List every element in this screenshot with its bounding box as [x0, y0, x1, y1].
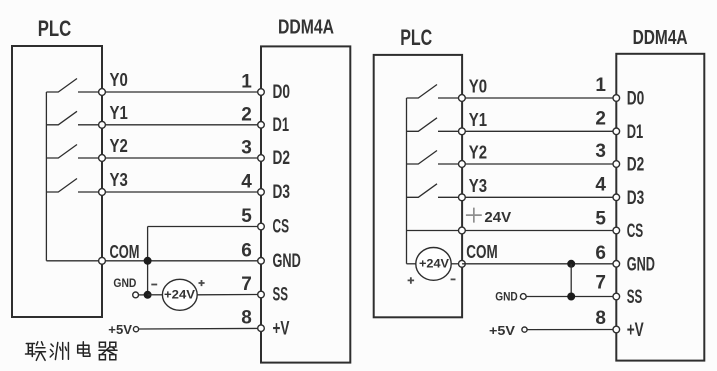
wire GND terminal to junction (left)	[139, 294, 148, 296]
wire GND terminal to SS (right)	[526, 296, 616, 298]
wire junction to source minus (left)	[148, 294, 163, 296]
pin 3 circle (right DDM4A)	[613, 161, 620, 168]
pin 4 circle (left DDM4A)	[258, 189, 265, 196]
svg-text:+24V: +24V	[419, 257, 449, 271]
PLC box (right)	[374, 55, 462, 317]
svg-text:D2: D2	[273, 148, 291, 169]
svg-text:4: 4	[595, 174, 606, 195]
pin 1 circle (right DDM4A)	[613, 95, 620, 102]
svg-text:24V: 24V	[484, 209, 511, 226]
pin 3 circle (left DDM4A)	[258, 155, 265, 162]
junction GND-SS node (right)	[567, 293, 575, 301]
wire source to COM pin (right)	[451, 263, 462, 265]
wire Y1 to pin 2 (left)	[78, 124, 261, 126]
svg-text:Y1: Y1	[110, 103, 128, 123]
wire COM to GND pin (right)	[462, 263, 616, 265]
svg-text:Y1: Y1	[469, 110, 487, 130]
svg-text:7: 7	[595, 273, 606, 294]
svg-text:3: 3	[241, 138, 252, 159]
pin Y0 (right PLC)	[459, 95, 466, 102]
svg-text:GND: GND	[495, 289, 518, 303]
pin 7 circle (left DDM4A)	[258, 291, 265, 298]
switch S2 contact Y1 (left)	[46, 111, 77, 125]
svg-text:8: 8	[241, 308, 252, 329]
wire Y1 to pin 2 (right)	[438, 130, 616, 132]
switch S5 contact Y0 (right)	[407, 85, 438, 99]
supply V1 +24V (left)	[162, 279, 197, 310]
svg-text:+V: +V	[627, 320, 644, 341]
pin 4 circle (right DDM4A)	[613, 194, 620, 201]
svg-text:DDM4A: DDM4A	[278, 17, 334, 39]
switch S6 contact Y1 (right)	[407, 118, 438, 132]
pin COM (left PLC)	[99, 257, 106, 264]
wire GND bus vertical (right)	[570, 264, 572, 297]
polarity minus V1 (left)	[151, 284, 157, 286]
svg-text:CS: CS	[627, 221, 644, 242]
svg-text:Y0: Y0	[110, 70, 128, 90]
svg-text:7: 7	[241, 274, 252, 295]
wire Y3 to pin 4 (right)	[438, 196, 616, 198]
svg-text:D1: D1	[273, 115, 290, 136]
svg-text:SS: SS	[627, 287, 643, 308]
junction COM node (left)	[144, 257, 152, 265]
pin 5 circle (right DDM4A)	[613, 227, 620, 234]
svg-text:GND: GND	[113, 276, 136, 290]
pin 1 circle (left DDM4A)	[258, 89, 265, 96]
svg-text:Y2: Y2	[110, 136, 128, 156]
svg-text:CS: CS	[273, 217, 290, 238]
wire +5V to +V (right)	[527, 329, 616, 331]
svg-text:D0: D0	[273, 82, 291, 103]
svg-text:5: 5	[241, 206, 252, 227]
pin Y2 (right PLC)	[459, 161, 466, 168]
pin +24V output (right PLC)	[459, 227, 466, 234]
switch S3 contact Y2 (left)	[46, 145, 77, 159]
pin Y3 (right PLC)	[459, 194, 466, 201]
svg-text:DDM4A: DDM4A	[633, 27, 688, 49]
svg-text:2: 2	[595, 108, 606, 129]
switch S8 contact Y3 (right)	[407, 184, 438, 198]
svg-text:Y3: Y3	[110, 170, 128, 190]
watermark 联 (char 1)	[26, 342, 46, 361]
svg-text:+V: +V	[273, 318, 290, 339]
wire +24V output to CS (right)	[407, 230, 617, 232]
pin Y2 (left PLC)	[99, 155, 106, 162]
svg-text:GND: GND	[627, 254, 655, 275]
pin 2 circle (right DDM4A)	[613, 128, 620, 135]
svg-text:6: 6	[595, 243, 606, 264]
wire CS branch (left)	[148, 226, 261, 228]
pin 2 circle (left DDM4A)	[258, 122, 265, 129]
watermark 洲 (char 2)	[50, 343, 68, 360]
junction GND node (left)	[144, 291, 152, 299]
PLC box (left)	[12, 46, 102, 317]
switch S4 contact Y3 (left)	[46, 179, 77, 193]
svg-text:GND: GND	[273, 251, 301, 272]
switch common bus (left)	[45, 92, 47, 261]
wire Y0 to pin 1 (right)	[438, 97, 616, 99]
svg-text:+5V: +5V	[108, 322, 132, 337]
wire Y3 to pin 4 (left)	[78, 191, 261, 193]
svg-text:Y3: Y3	[469, 176, 487, 196]
svg-text:D3: D3	[273, 182, 291, 203]
pin Y0 (left PLC)	[99, 89, 106, 96]
watermark 电 (char 3)	[78, 342, 90, 357]
svg-text:+24V: +24V	[164, 287, 195, 301]
wire COM to GND pin (left)	[102, 260, 261, 262]
pin 8 circle (right DDM4A)	[613, 326, 620, 333]
svg-text:COM: COM	[110, 242, 140, 262]
supply V2 +24V (right)	[416, 248, 451, 281]
pin COM (right PLC)	[459, 260, 466, 267]
svg-text:Y2: Y2	[469, 143, 487, 163]
wire source plus to SS (left)	[197, 294, 261, 296]
terminal +5V (right)	[522, 327, 527, 332]
terminal +5V (left)	[133, 327, 138, 332]
wire Y2 to pin 3 (left)	[78, 157, 261, 159]
watermark 器 (char 4)	[99, 342, 117, 360]
svg-text:PLC: PLC	[38, 16, 72, 41]
pin 7 circle (right DDM4A)	[613, 293, 620, 300]
switch S1 contact Y0 (left)	[46, 79, 77, 93]
svg-text:1: 1	[595, 75, 606, 96]
svg-text:+5V: +5V	[489, 323, 515, 338]
pin 5 circle (left DDM4A)	[258, 223, 265, 230]
svg-text:5: 5	[595, 209, 606, 230]
pin 8 circle (left DDM4A)	[258, 325, 265, 332]
pin 6 circle (right DDM4A)	[613, 261, 620, 268]
wire bus to COM pin (left)	[46, 260, 102, 262]
svg-text:D0: D0	[627, 89, 645, 110]
wire bus to source minus... (right)	[407, 263, 417, 265]
svg-text:D3: D3	[627, 188, 645, 209]
svg-text:6: 6	[241, 240, 252, 261]
wire +5V to +V (left)	[139, 327, 261, 330]
svg-text:COM: COM	[466, 242, 497, 262]
pin Y1 (left PLC)	[99, 121, 106, 128]
svg-text:1: 1	[241, 72, 252, 93]
pin Y3 (left PLC)	[99, 189, 106, 196]
wire CS-to-GND vertical (left)	[147, 227, 149, 295]
svg-text:PLC: PLC	[400, 25, 432, 50]
pin 6 circle (left DDM4A)	[258, 258, 265, 265]
svg-text:Y0: Y0	[469, 77, 487, 97]
polarity plus on +24V output (right)	[466, 208, 482, 223]
svg-text:D2: D2	[627, 155, 645, 176]
polarity minus V2 (right)	[451, 278, 456, 280]
pin Y1 (right PLC)	[459, 128, 466, 135]
svg-text:D1: D1	[627, 122, 644, 143]
svg-text:2: 2	[241, 104, 252, 125]
switch common bus (right)	[406, 98, 408, 264]
switch S7 contact Y2 (right)	[407, 151, 438, 165]
junction COM-GND node (right)	[567, 260, 575, 268]
terminal GND (left)	[133, 292, 139, 298]
polarity plus V1 (left)	[199, 280, 205, 286]
svg-text:4: 4	[241, 172, 252, 193]
wire Y2 to pin 3 (right)	[438, 163, 616, 165]
terminal GND (right)	[520, 294, 526, 300]
svg-text:SS: SS	[273, 285, 289, 306]
svg-text:8: 8	[595, 308, 606, 329]
DDM4A box (right)	[616, 54, 704, 361]
wire Y0 to pin 1 (left)	[78, 91, 261, 93]
polarity plus V2 (right)	[408, 277, 415, 284]
DDM4A box (left)	[261, 46, 350, 362]
svg-text:3: 3	[595, 141, 606, 162]
